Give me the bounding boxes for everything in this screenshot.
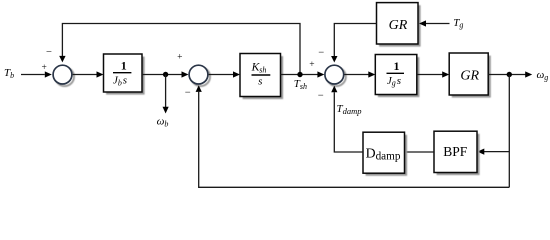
summing junction S2	[189, 65, 210, 86]
svg-text:1: 1	[121, 59, 127, 73]
svg-text:Tb: Tb	[4, 67, 14, 80]
svg-text:+: +	[177, 53, 182, 63]
wire: top feedback from node T_sh up, left, and down into S1	[59, 24, 300, 75]
svg-text:Tdamp: Tdamp	[337, 103, 362, 116]
svg-text:+: +	[309, 60, 314, 70]
wire: down arrow to omega_b output	[163, 75, 169, 114]
svg-text:BPF: BPF	[443, 144, 468, 159]
svg-text:Tsh: Tsh	[294, 78, 307, 91]
block 1/(Jb s)	[104, 54, 145, 95]
block Ksh/s	[240, 54, 283, 100]
svg-text:GR: GR	[460, 69, 479, 84]
wire: bottom long feedback from omega_g down-line to S2 bottom	[196, 85, 510, 187]
svg-text:−: −	[318, 90, 324, 101]
wire: block 1/(Jb s) to S2	[142, 71, 189, 77]
block GR (top)	[377, 3, 421, 47]
wire: T_g input arrow into GR top	[419, 20, 450, 26]
wire: BPF to D_damp	[405, 151, 435, 153]
block 1/(Jg s)	[375, 55, 419, 98]
wire: GR to omega_g output	[488, 71, 532, 77]
summing junction S3	[325, 65, 346, 86]
block D_damp	[363, 132, 407, 176]
block BPF	[434, 131, 480, 175]
svg-text:s: s	[258, 76, 262, 88]
wire: block Ksh/s to S3	[281, 71, 325, 77]
wire: GR top output left and down into S3 top	[331, 24, 376, 63]
svg-text:1: 1	[394, 59, 400, 73]
wire: T_b input arrow into summing junction S1	[21, 71, 52, 77]
svg-text:ωg: ωg	[537, 69, 549, 82]
node: omega_b tap junction dot	[163, 72, 168, 77]
wire: S1 to block 1/(Jb s)	[73, 71, 104, 77]
wire: omega_g node down to bottom feedback	[508, 75, 510, 188]
wire: block 1/(Jg s) to block GR	[417, 71, 449, 77]
wire: S2 to block Ksh/s	[209, 71, 240, 77]
svg-text:ωb: ωb	[157, 116, 169, 129]
block GR (main)	[449, 53, 491, 98]
svg-text:GR: GR	[389, 18, 408, 33]
svg-text:−: −	[318, 48, 324, 59]
wire: D_damp output left and up into S3 bottom (T_damp)	[331, 86, 363, 152]
wire: branch into BPF input	[477, 149, 509, 155]
svg-text:+: +	[42, 63, 47, 73]
svg-text:Tg: Tg	[453, 17, 463, 30]
svg-text:−: −	[46, 47, 52, 58]
svg-text:−: −	[185, 88, 191, 99]
node: omega_g junction dot	[507, 72, 512, 77]
wire: S3 to block 1/(Jg s)	[344, 71, 375, 77]
summing junction S1	[53, 65, 74, 86]
node: T_sh junction dot	[297, 72, 302, 77]
